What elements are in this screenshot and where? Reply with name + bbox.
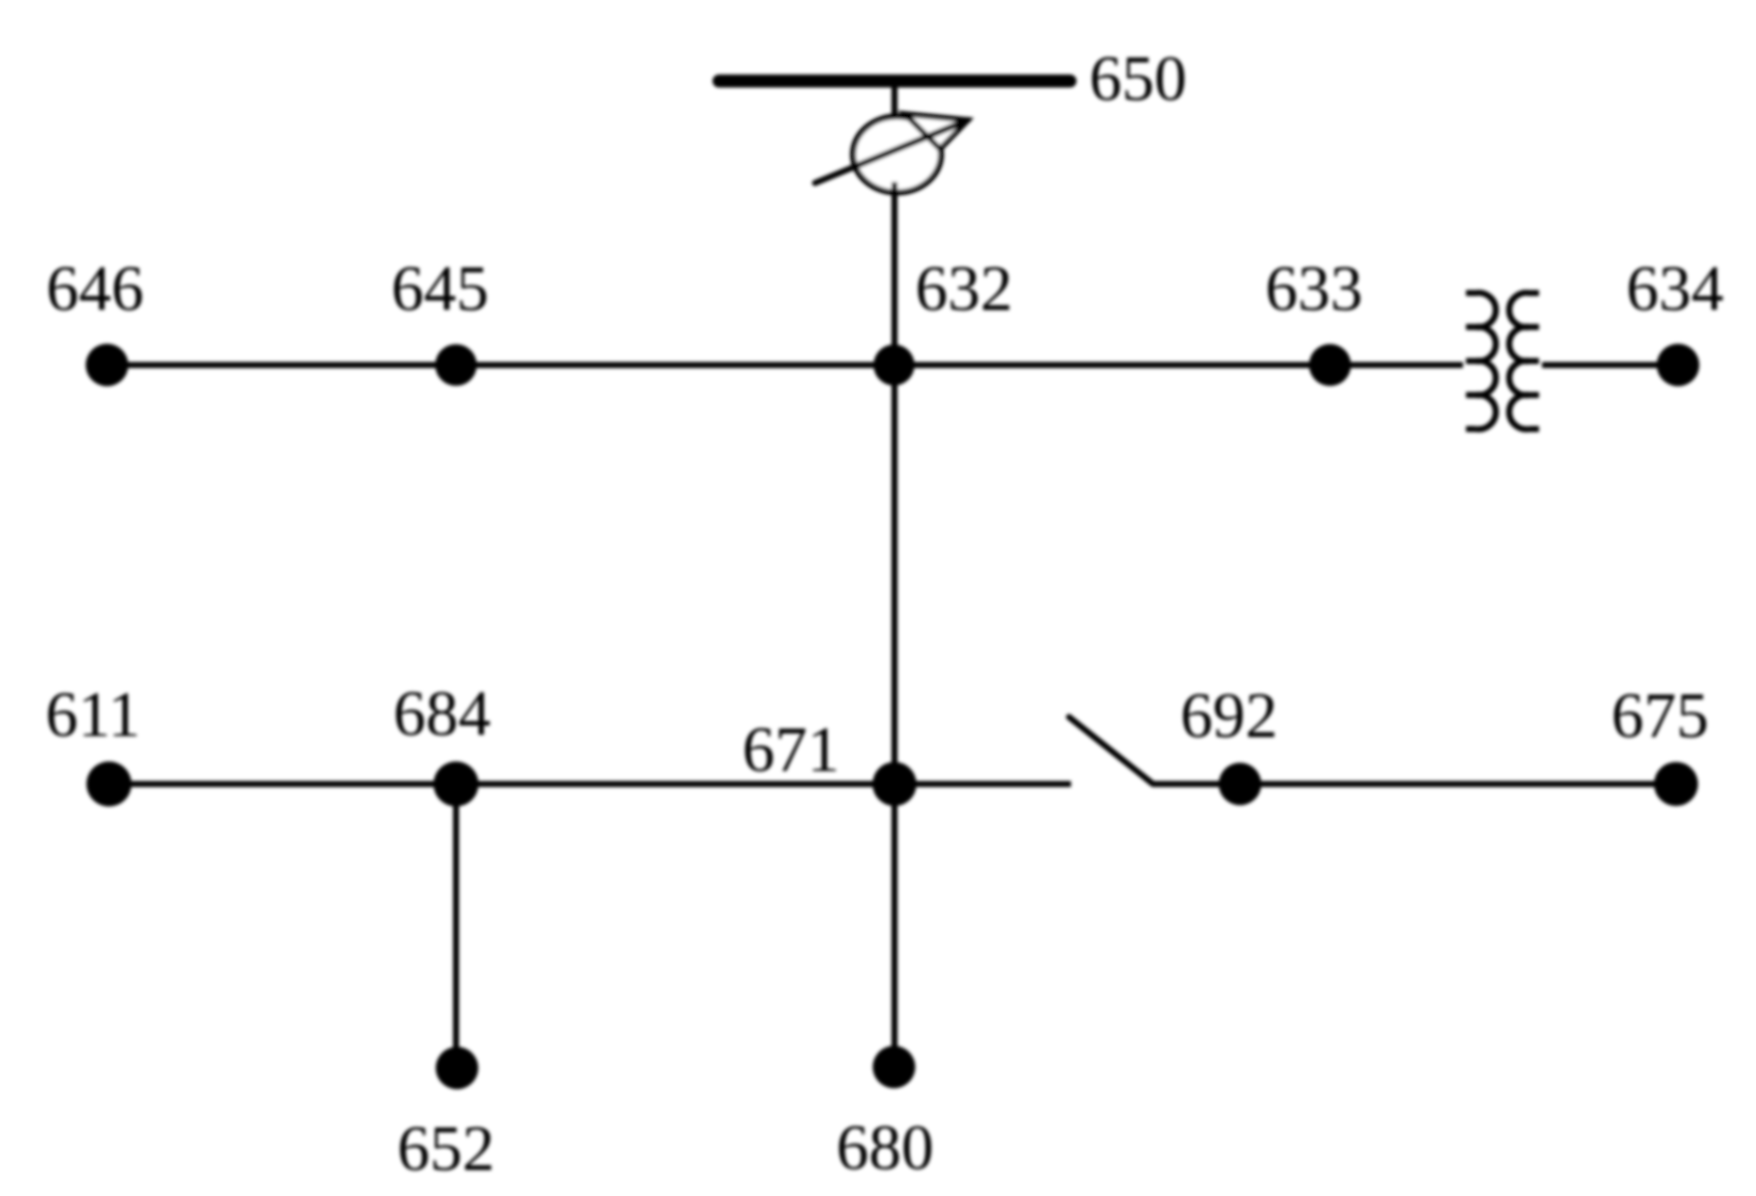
svg-text:633: 633	[1265, 253, 1363, 325]
wire 684-671	[456, 781, 894, 787]
node 611	[87, 762, 132, 807]
svg-text:646: 646	[46, 253, 144, 325]
regulator arrow shaft	[815, 120, 968, 183]
wire 645-632	[456, 362, 895, 368]
svg-text:645: 645	[391, 253, 489, 325]
node 645	[435, 344, 477, 386]
svg-text:671: 671	[742, 714, 840, 786]
wire regulator-632	[892, 182, 898, 367]
node 675	[1654, 762, 1698, 806]
node 692	[1219, 763, 1262, 806]
wire 632-671	[892, 365, 898, 784]
bus 650	[719, 75, 1070, 88]
svg-text:692: 692	[1180, 680, 1278, 752]
wire 611-684	[109, 781, 456, 787]
wire 632-633	[895, 362, 1331, 368]
regulator arrow head	[905, 114, 968, 149]
node 652	[436, 1047, 479, 1090]
svg-text:675: 675	[1611, 680, 1709, 752]
switch SW blade (open)	[1069, 717, 1153, 784]
node 633	[1309, 344, 1351, 386]
wire switch-692	[1153, 781, 1240, 787]
node 634	[1657, 344, 1700, 387]
svg-text:632: 632	[915, 253, 1013, 325]
svg-text:684: 684	[393, 678, 491, 750]
wire 692-675	[1240, 781, 1676, 787]
svg-text:680: 680	[836, 1112, 934, 1184]
node 680	[873, 1046, 916, 1089]
wire 671-switch	[894, 781, 1071, 787]
node 646	[86, 344, 129, 387]
node 632	[874, 345, 915, 386]
node 671	[873, 762, 917, 806]
node 684	[434, 762, 479, 807]
wire 684-652	[453, 784, 459, 1068]
transformer XFM-1 left winding	[1466, 293, 1496, 429]
svg-text:652: 652	[397, 1113, 495, 1185]
voltage regulator VR	[853, 117, 941, 193]
wire 650-regulator	[892, 87, 898, 119]
wire transformer-634	[1542, 362, 1678, 368]
wire 646-645	[107, 362, 456, 368]
transformer XFM-1 right winding	[1509, 293, 1539, 429]
svg-text:611: 611	[45, 679, 140, 751]
wire 671-680	[892, 784, 898, 1067]
wire 633-transformer	[1330, 362, 1463, 368]
svg-text:634: 634	[1626, 253, 1724, 325]
svg-text:650: 650	[1089, 43, 1187, 115]
